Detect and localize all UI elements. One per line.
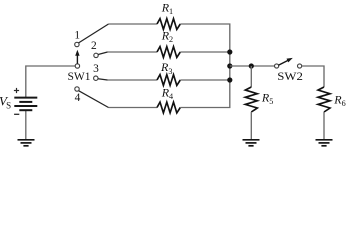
switch SW2 right terminal [298,64,302,68]
ground (R6) [316,140,333,146]
row 2 right wire [180,51,230,53]
svg-text:2: 2 [91,40,97,52]
terminal 1 [75,42,79,46]
junction dot row3/bus [227,77,232,82]
wire battery bottom to ground [25,110,27,140]
resistor R1 [157,19,180,30]
row 3 left wire [108,79,158,81]
wire SW2 to R6 [302,66,324,87]
throw wire 2 [98,52,107,55]
ground (R5) [243,140,260,146]
resistor R3 [157,75,180,86]
bus vertical wire [229,52,231,80]
junction dot row2/bus [227,49,232,54]
svg-text:SW1: SW1 [68,69,91,83]
ground (battery) [18,140,35,146]
terminal 4 [75,87,79,91]
svg-text:3: 3 [93,63,99,75]
battery plus sign [14,88,19,93]
throw wire 3 [98,79,108,80]
R6 bottom wire [323,112,325,140]
throw wire 4 [79,91,109,108]
row 4 right wire + corner into bus [180,80,230,108]
wire battery top to SW1 common [26,66,76,98]
throw wire 1 [79,24,109,43]
svg-text:1: 1 [74,30,80,42]
SW2 blade arrow [278,60,288,65]
row 1 right wire + corner into bus [180,24,230,52]
junction dot R5 branch [249,63,254,68]
main wire bus to SW2 [230,65,275,67]
SW1 wiper arrow [76,55,78,64]
switch SW2 left terminal [275,64,279,68]
R5 branch top wire [250,66,252,87]
resistor R5 [245,87,257,112]
terminal 3 [94,76,98,80]
battery VS plates [14,98,37,111]
resistor R4 [157,102,180,113]
row 3 right wire [180,79,230,81]
resistor R6 [318,87,330,112]
SW1 common pole [75,64,79,68]
svg-text:4: 4 [75,92,81,104]
terminal 2 [94,53,98,57]
row 4 left wire [109,107,158,109]
row 1 left wire [109,23,158,25]
row 2 left wire [108,51,158,53]
R5 bottom wire [250,112,252,140]
battery minus sign [14,113,19,115]
resistor R2 [157,47,180,58]
junction dot main/bus [227,63,232,68]
svg-text:SW2: SW2 [277,69,303,83]
